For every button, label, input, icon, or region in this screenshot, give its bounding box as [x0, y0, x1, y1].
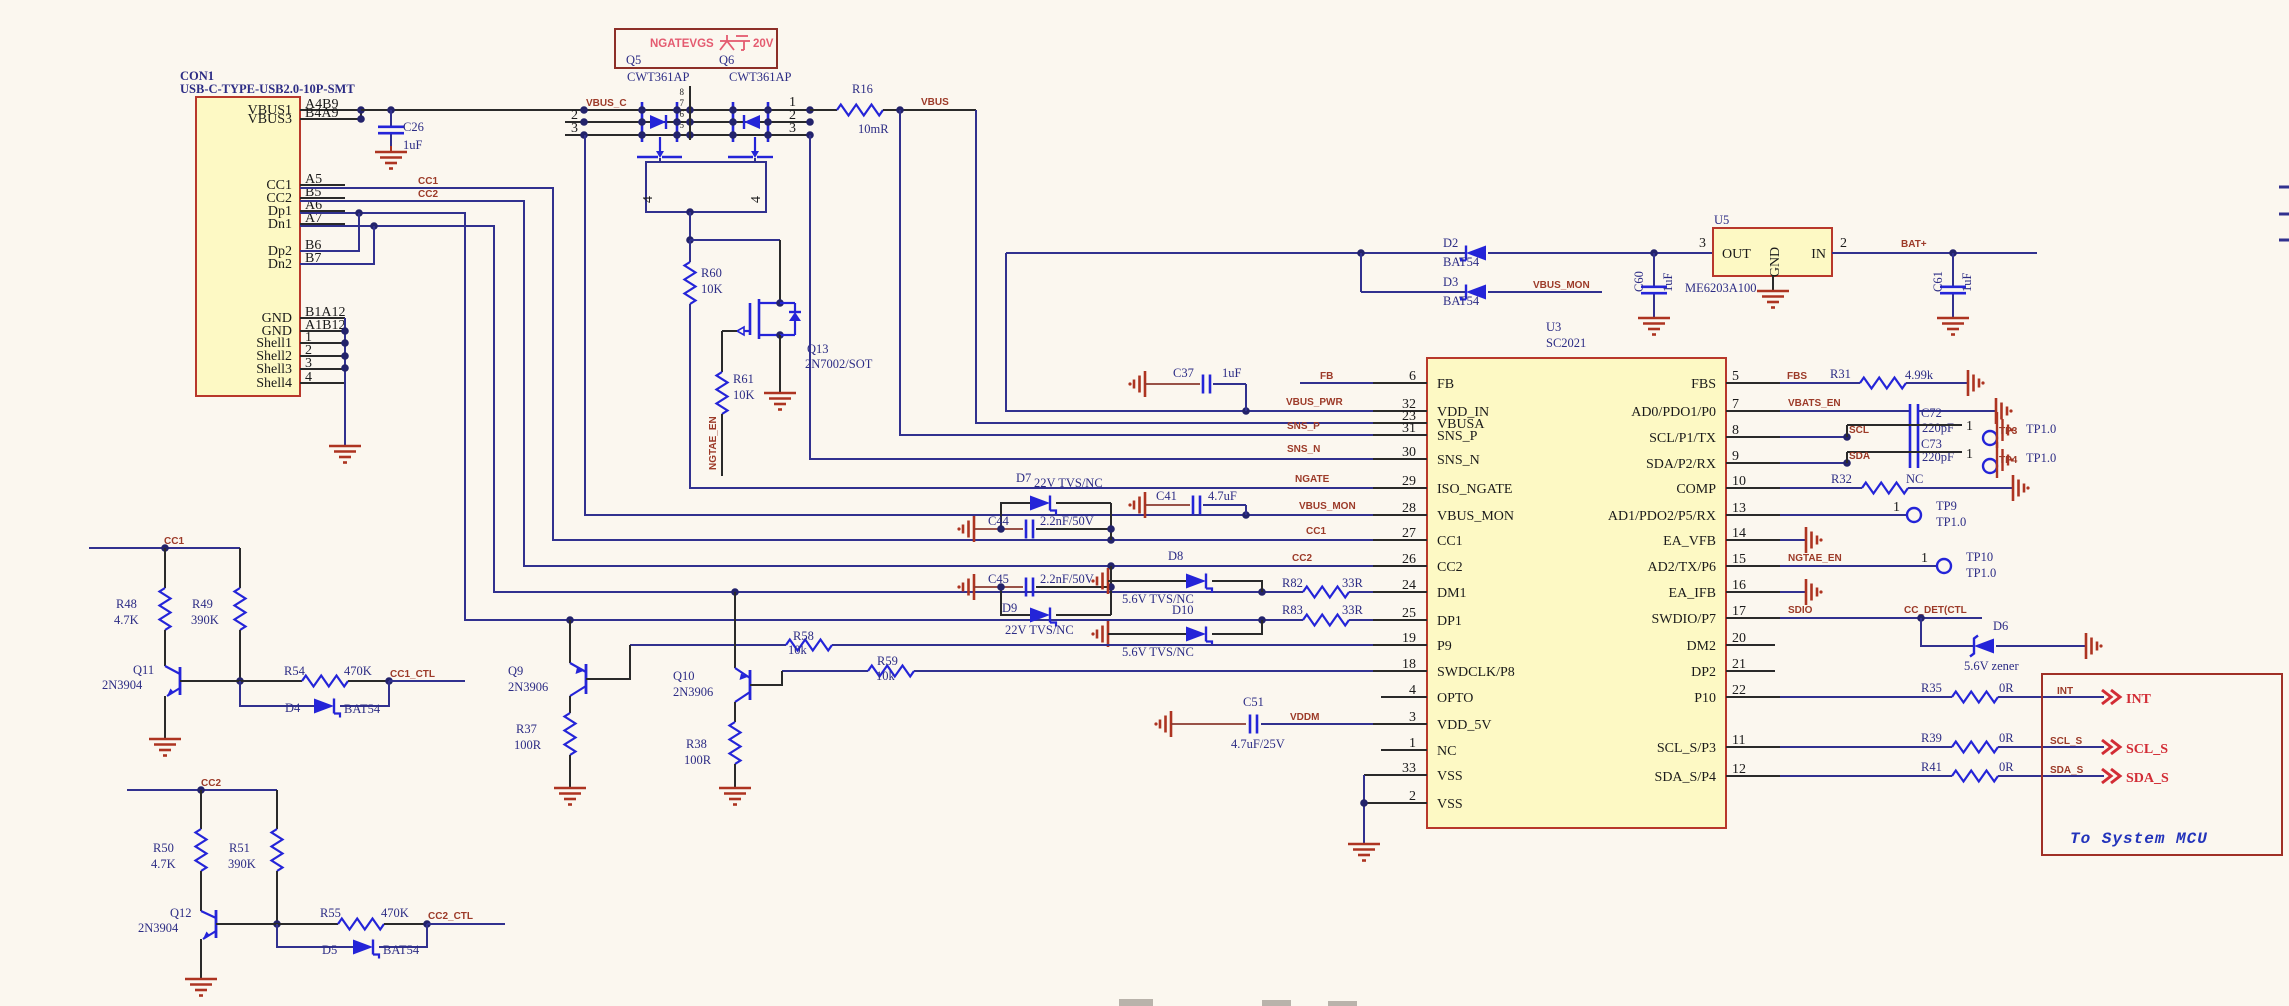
transistor Q12 2N3904 [201, 871, 277, 939]
resistor R48 4.7K [114, 548, 171, 630]
svg-text:8: 8 [680, 87, 685, 97]
svg-text:CC1: CC1 [164, 536, 184, 547]
svg-text:NGTAE_EN: NGTAE_EN [1788, 553, 1842, 564]
svg-text:D6: D6 [1993, 619, 2008, 633]
svg-text:D3: D3 [1443, 275, 1458, 289]
svg-text:TP1.0: TP1.0 [2026, 422, 2056, 436]
svg-text:SCL_S: SCL_S [2050, 736, 2083, 747]
svg-text:FBS: FBS [1691, 377, 1716, 392]
U3 pin 21 DP2 [1691, 657, 1775, 680]
resistor R31 4.99k [1780, 367, 1968, 389]
svg-text:ME6203A100: ME6203A100 [1685, 281, 1757, 295]
wire D2 to U5 OUT [1488, 249, 1713, 257]
wire SNS_N net [810, 135, 1373, 459]
ground under R37 [554, 788, 586, 805]
svg-text:6: 6 [1409, 369, 1416, 384]
svg-text:TP1.0: TP1.0 [1966, 566, 1996, 580]
CON1 pin B7 Dn2 [268, 251, 345, 272]
svg-text:2: 2 [1409, 789, 1416, 804]
svg-text:220pF: 220pF [1922, 421, 1954, 435]
svg-text:1: 1 [1893, 500, 1900, 515]
svg-text:R58: R58 [793, 629, 814, 643]
wire SWDCLK row [914, 670, 1373, 672]
ground under Q11 [149, 739, 181, 756]
wire U3 VSS join [1360, 775, 1368, 843]
svg-text:AD0/PDO1/P0: AD0/PDO1/P0 [1631, 405, 1716, 420]
bottom edge marks [1119, 999, 1357, 1006]
label SCL [1849, 425, 1869, 436]
pin number 3 left [571, 121, 578, 136]
U3 pin 22 P10 [1694, 683, 1780, 706]
label NGATE [1295, 474, 1330, 485]
wire Dp2 join [300, 213, 359, 251]
resistor R58 10k [630, 629, 832, 657]
label Q11 [102, 663, 154, 692]
svg-text:DM1: DM1 [1437, 586, 1467, 601]
wire SNS_P net [900, 110, 1373, 435]
svg-text:D5: D5 [322, 943, 337, 957]
svg-text:0R: 0R [1999, 681, 2014, 695]
svg-text:SC2021: SC2021 [1546, 336, 1586, 350]
port SDA_S [2050, 765, 2169, 786]
svg-text:5.6V zener: 5.6V zener [1964, 659, 2019, 673]
U3 pin 1 NC [1381, 736, 1456, 759]
wire D3 branch [1360, 253, 1362, 292]
svg-text:SNS_P: SNS_P [1437, 429, 1478, 444]
svg-text:13: 13 [1732, 501, 1746, 516]
wire CON1 shell/gnd bus [341, 318, 349, 445]
svg-text:26: 26 [1402, 552, 1416, 567]
CON1 pin B5 CC2 [266, 185, 345, 206]
label Q6 [719, 53, 734, 67]
svg-text:18: 18 [1402, 657, 1416, 672]
U3 pin 3 VDD_5V [1373, 710, 1491, 733]
svg-text:Shell3: Shell3 [256, 362, 292, 377]
svg-text:2N3904: 2N3904 [138, 921, 179, 935]
diode D7 22V TVS [1001, 471, 1111, 540]
wire pin15 NGTAE_EN [1780, 551, 1937, 566]
resistor R41 0R [1780, 760, 2104, 782]
svg-text:VDD_5V: VDD_5V [1437, 718, 1491, 733]
U3 pin 28 VBUS_MON [1373, 501, 1514, 524]
ground under C26 [375, 146, 407, 169]
svg-text:FB: FB [1437, 377, 1454, 392]
svg-text:FBS: FBS [1787, 371, 1807, 382]
pin number 2 left [571, 108, 578, 123]
svg-text:20V: 20V [753, 38, 774, 50]
U3 pin 7 AD0/PDO1/P0 [1631, 397, 1780, 420]
pin number 1 right [789, 95, 796, 110]
svg-text:Q6: Q6 [719, 53, 734, 67]
svg-text:VBUS: VBUS [921, 97, 949, 108]
svg-text:4: 4 [749, 196, 764, 203]
label CC1 pin [1306, 526, 1326, 537]
diode D9 22V TVS [1001, 566, 1111, 637]
svg-text:VBUS_C: VBUS_C [586, 98, 627, 109]
svg-text:SCL_S/P3: SCL_S/P3 [1657, 741, 1716, 756]
label CC2 pin [1292, 553, 1312, 564]
svg-text:C72: C72 [1921, 406, 1942, 420]
label CC_DET/CTL [1904, 605, 1967, 616]
resistor R51 390K [228, 790, 283, 871]
U3 pin 5 FBS [1691, 369, 1780, 392]
svg-text:EA_VFB: EA_VFB [1663, 534, 1716, 549]
svg-text:TP3: TP3 [1999, 426, 2018, 437]
label Q5 part CWT361AP [627, 70, 690, 84]
wire CC2 net [300, 201, 1373, 570]
capacitor C37 with ground [1128, 366, 1246, 411]
resistor R16 [837, 82, 889, 136]
label CC2 lower [201, 778, 221, 789]
svg-text:C60: C60 [1632, 271, 1646, 292]
svg-text:R35: R35 [1921, 681, 1942, 695]
resistor R83 33R [1282, 603, 1373, 626]
svg-text:5: 5 [1732, 369, 1739, 384]
CON1 pin B6 Dp2 [268, 238, 345, 259]
label FB [1320, 371, 1333, 382]
connector CON1 body [180, 69, 355, 396]
label SDA [1849, 451, 1870, 462]
svg-text:CC2: CC2 [1292, 553, 1312, 564]
capacitor C60 [1632, 253, 1675, 317]
wire rail1 to R16 [810, 109, 837, 111]
wire VBATS_EN pin7 [1780, 410, 1996, 412]
svg-text:R38: R38 [686, 737, 707, 751]
U3 pin 6 FB [1373, 369, 1454, 392]
svg-text:CC1_CTL: CC1_CTL [390, 669, 435, 680]
svg-text:470K: 470K [381, 906, 409, 920]
svg-text:R41: R41 [1921, 760, 1942, 774]
svg-text:SDA/P2/RX: SDA/P2/RX [1646, 457, 1716, 472]
U3 pin 12 SDA_S/P4 [1655, 762, 1780, 785]
svg-text:CC1: CC1 [1306, 526, 1326, 537]
CON1 pin A7 Dn1 [268, 211, 345, 232]
ground under Q13 [764, 393, 796, 410]
svg-text:2.2nF/50V: 2.2nF/50V [1040, 572, 1094, 586]
svg-text:5.6V TVS/NC: 5.6V TVS/NC [1122, 645, 1194, 659]
svg-text:R39: R39 [1921, 731, 1942, 745]
wire CC1 lower rail [89, 544, 240, 552]
wire VBUS1/VBUS3 join [357, 106, 365, 123]
label VBUS_MON pin [1299, 501, 1356, 512]
wire pin17 SDIO [1780, 614, 1982, 622]
svg-text:1: 1 [1921, 551, 1928, 566]
svg-text:ISO_NGATE: ISO_NGATE [1437, 482, 1512, 497]
capacitor C73 220pF [1847, 437, 1973, 464]
svg-text:21: 21 [1732, 657, 1746, 672]
wire U5 IN to BAT+ [1832, 249, 2037, 257]
svg-text:1uF: 1uF [1222, 366, 1242, 380]
svg-text:NGTAE_EN: NGTAE_EN [708, 416, 719, 470]
svg-text:R51: R51 [229, 841, 250, 855]
svg-text:BAT54: BAT54 [344, 702, 381, 716]
CON1 pin 1 Shell1 [256, 330, 345, 351]
svg-text:C73: C73 [1921, 437, 1942, 451]
pin 3 U5 [1699, 236, 1706, 251]
transistor Q13 2N7002 [722, 240, 801, 339]
transistor Q6 CWT361AP [728, 102, 773, 158]
U3 pin 19 P9 [1373, 631, 1452, 654]
port INT [2057, 686, 2152, 707]
svg-text:BAT54: BAT54 [1443, 255, 1480, 269]
resistor R38 100R [684, 702, 741, 767]
svg-text:C41: C41 [1156, 489, 1177, 503]
wire SCL pin8 [1780, 425, 1851, 441]
svg-text:3: 3 [305, 356, 312, 371]
diode D8 5.6V TVS [1091, 549, 1262, 606]
label VBUS [921, 97, 949, 108]
svg-text:COMP: COMP [1676, 482, 1716, 497]
U3 pin 8 SCL/P1/TX [1649, 423, 1780, 446]
resistor R55 470K [277, 906, 427, 930]
resistor R39 0R [1780, 731, 2104, 753]
label SNS_P [1287, 421, 1320, 432]
svg-text:10K: 10K [733, 388, 755, 402]
transistor Q9 2N3906 [570, 620, 630, 696]
resistor R32 NC [1780, 472, 2013, 494]
pin 4 label Q5 [641, 196, 656, 203]
svg-text:TP1.0: TP1.0 [1936, 515, 1966, 529]
svg-text:CC1: CC1 [1437, 534, 1463, 549]
svg-text:AD1/PDO2/P5/RX: AD1/PDO2/P5/RX [1608, 509, 1716, 524]
wire P9 row [832, 644, 1373, 646]
resistor R61 [717, 331, 755, 414]
svg-text:VBUS_MON: VBUS_MON [1437, 509, 1514, 524]
wire SDA pin9 [1780, 452, 1851, 467]
svg-text:SNS_N: SNS_N [1437, 453, 1480, 468]
svg-text:CWT361AP: CWT361AP [627, 70, 690, 84]
svg-text:2N3906: 2N3906 [673, 685, 713, 699]
svg-text:CC2: CC2 [201, 778, 221, 789]
svg-text:DM2: DM2 [1686, 639, 1716, 654]
ground under C61 [1937, 318, 1969, 335]
svg-text:17: 17 [1732, 604, 1746, 619]
svg-text:11: 11 [1732, 733, 1745, 748]
svg-text:CC_DET(CTL: CC_DET(CTL [1904, 605, 1967, 616]
resistor R60 [685, 240, 723, 304]
svg-text:33R: 33R [1342, 576, 1364, 590]
svg-text:Q13: Q13 [807, 342, 829, 356]
svg-text:BAT54: BAT54 [1443, 294, 1480, 308]
wire Q13 source to ground [779, 335, 781, 392]
transistor Q5 CWT361AP [637, 102, 682, 158]
svg-text:C51: C51 [1243, 695, 1264, 709]
U3 pin 18 SWDCLK/P8 [1373, 657, 1515, 680]
transistor Q10 2N3906 [735, 592, 782, 702]
node gate junction [686, 208, 694, 244]
wire VBUS from CON1 to FETs [361, 106, 584, 114]
svg-text:VDDM: VDDM [1290, 712, 1319, 723]
svg-text:To System MCU: To System MCU [2070, 830, 2208, 848]
ground under C60 [1638, 318, 1670, 335]
svg-text:NGATEVGS: NGATEVGS [650, 38, 714, 50]
svg-text:D10: D10 [1172, 603, 1194, 617]
capacitor C51 with ground [1154, 695, 1373, 751]
svg-text:INT: INT [2126, 692, 2152, 707]
pin number 3 right [789, 121, 796, 136]
svg-text:R49: R49 [192, 597, 213, 611]
wire R51 to base [273, 871, 281, 928]
svg-text:CC1: CC1 [418, 176, 438, 187]
svg-text:R83: R83 [1282, 603, 1303, 617]
label CC1 lower [164, 536, 184, 547]
U3 pin 33 VSS [1364, 761, 1463, 784]
diode D2 BAT54 [1443, 236, 1486, 269]
svg-text:P9: P9 [1437, 639, 1452, 654]
CON1 pin 4 Shell4 [256, 370, 345, 391]
U3 pin 30 SNS_N [1373, 445, 1480, 468]
label SDIO [1788, 605, 1813, 616]
svg-text:2N3906: 2N3906 [508, 680, 548, 694]
label U5 part ME6203A100 [1685, 281, 1757, 295]
wire rail pin3 [565, 134, 810, 136]
CON1 pin B1A12 GND [262, 305, 346, 326]
label BAT+ [1901, 239, 1927, 250]
U3 pin 14 EA_VFB [1663, 526, 1780, 549]
diode D6 5.6V zener [1921, 618, 2086, 673]
svg-text:OPTO: OPTO [1437, 691, 1473, 706]
wire VBUSA net [976, 110, 1373, 423]
wire VBUS_C rail pin1 [584, 109, 810, 111]
resistor R37 100R [514, 696, 576, 755]
svg-text:10: 10 [1732, 474, 1746, 489]
svg-text:NC: NC [1906, 472, 1923, 486]
svg-text:TP9: TP9 [1936, 499, 1957, 513]
CON1 pin 3 Shell3 [256, 356, 345, 377]
CON1 pin A4B9 VBUS1 [248, 97, 361, 118]
node rails center junctions [686, 106, 694, 139]
svg-text:IN: IN [1811, 247, 1826, 262]
svg-text:R32: R32 [1831, 472, 1852, 486]
svg-text:R37: R37 [516, 722, 537, 736]
svg-text:10k: 10k [876, 669, 896, 683]
ground pin14 [1780, 527, 1823, 553]
svg-text:1uF: 1uF [403, 138, 423, 152]
U3 pin 2 VSS [1364, 789, 1463, 812]
svg-text:16: 16 [1732, 578, 1746, 593]
svg-text:C26: C26 [403, 120, 424, 134]
wire DP1 net (Dp1) [300, 209, 1303, 624]
svg-text:22: 22 [1732, 683, 1746, 698]
svg-text:100R: 100R [684, 753, 712, 767]
svg-text:3: 3 [789, 121, 796, 136]
wire CC2 lower rail [127, 786, 277, 794]
label VBATS_EN [1788, 398, 1841, 409]
svg-text:1: 1 [1966, 447, 1973, 462]
svg-text:R50: R50 [153, 841, 174, 855]
svg-text:TP1.0: TP1.0 [2026, 451, 2056, 465]
svg-text:NC: NC [1437, 744, 1456, 759]
svg-text:R82: R82 [1282, 576, 1303, 590]
node CC1_CTL [385, 669, 435, 685]
svg-text:R48: R48 [116, 597, 137, 611]
U3 pin 11 SCL_S/P3 [1657, 733, 1780, 756]
svg-text:1uF: 1uF [1661, 273, 1675, 293]
label SNS_N [1287, 444, 1320, 455]
svg-text:SDA: SDA [1849, 451, 1870, 462]
label VBUS_PWR [1286, 397, 1343, 408]
svg-text:390K: 390K [228, 857, 256, 871]
svg-text:BAT+: BAT+ [1901, 239, 1927, 250]
svg-text:SDIO: SDIO [1788, 605, 1813, 616]
svg-text:24: 24 [1402, 578, 1416, 593]
svg-text:2N7002/SOT: 2N7002/SOT [805, 357, 873, 371]
svg-text:4.7K: 4.7K [114, 613, 139, 627]
svg-text:EA_IFB: EA_IFB [1669, 586, 1716, 601]
svg-text:AD2/TX/P6: AD2/TX/P6 [1648, 560, 1716, 575]
svg-text:12: 12 [1732, 762, 1746, 777]
svg-text:SDA_S: SDA_S [2126, 771, 2169, 786]
ground right of D6 [2086, 633, 2103, 659]
svg-text:DP1: DP1 [1437, 614, 1462, 629]
svg-text:Q12: Q12 [170, 906, 192, 920]
CON1 pin A6 Dp1 [268, 198, 345, 219]
svg-text:SCL/P1/TX: SCL/P1/TX [1649, 431, 1716, 446]
wire to D3 [1361, 291, 1466, 293]
svg-text:2.2nF/50V: 2.2nF/50V [1040, 514, 1094, 528]
off-sheet dashes right edge [2279, 187, 2289, 240]
svg-text:D7: D7 [1016, 471, 1031, 485]
svg-text:SNS_N: SNS_N [1287, 444, 1320, 455]
svg-text:1: 1 [1409, 736, 1416, 751]
svg-text:Shell4: Shell4 [256, 376, 292, 391]
U3 pin 16 EA_IFB [1669, 578, 1780, 601]
ground pin16 [1780, 579, 1823, 605]
wire pin13 to TP9 [1780, 500, 1907, 515]
ground right of R32 [2013, 475, 2030, 501]
wire Q11 emitter [164, 696, 166, 738]
transistor Q11 2N3904 [165, 630, 240, 696]
svg-text:0R: 0R [1999, 760, 2014, 774]
CON1 pin B4A9 VBUS3 [248, 106, 361, 127]
svg-text:15: 15 [1732, 552, 1746, 567]
svg-text:OUT: OUT [1722, 247, 1751, 262]
svg-text:R59: R59 [877, 654, 898, 668]
svg-text:3: 3 [1409, 710, 1416, 725]
svg-text:CC2: CC2 [1437, 560, 1463, 575]
svg-text:SCL: SCL [1849, 425, 1869, 436]
svg-text:19: 19 [1402, 631, 1416, 646]
svg-text:U3: U3 [1546, 320, 1561, 334]
svg-text:Dn2: Dn2 [268, 257, 292, 272]
svg-text:VSS: VSS [1437, 797, 1463, 812]
wire VBUS_PWR to D2 [1006, 249, 1466, 257]
svg-text:TP4: TP4 [1999, 455, 2018, 466]
CON1 pin A5 CC1 [266, 172, 345, 193]
CON1 pin A1B12 GND [262, 318, 346, 339]
U3 pin 10 COMP [1676, 474, 1780, 497]
svg-text:D4: D4 [285, 701, 301, 715]
testpoint TP4 [1983, 442, 2056, 478]
U3 pin 25 DP1 [1373, 606, 1462, 629]
svg-text:3: 3 [571, 121, 578, 136]
wire common drain bus [680, 86, 691, 140]
testpoint TP10 [1937, 550, 1996, 580]
svg-text:4.7uF/25V: 4.7uF/25V [1231, 737, 1285, 751]
box To System MCU [2042, 674, 2282, 855]
wire NGATE net [690, 304, 1373, 488]
label CC2 source [418, 189, 438, 200]
svg-text:1uF: 1uF [1960, 273, 1974, 293]
U3 pin 20 DM2 [1686, 631, 1775, 654]
svg-text:9: 9 [1732, 449, 1739, 464]
wire D3 VBUS_MON stub [1488, 280, 1602, 292]
pin number 2 right [789, 108, 796, 123]
ground right of R31 [1968, 370, 1985, 396]
svg-text:Q9: Q9 [508, 664, 523, 678]
svg-text:7: 7 [680, 98, 685, 108]
svg-text:C44: C44 [988, 514, 1010, 528]
